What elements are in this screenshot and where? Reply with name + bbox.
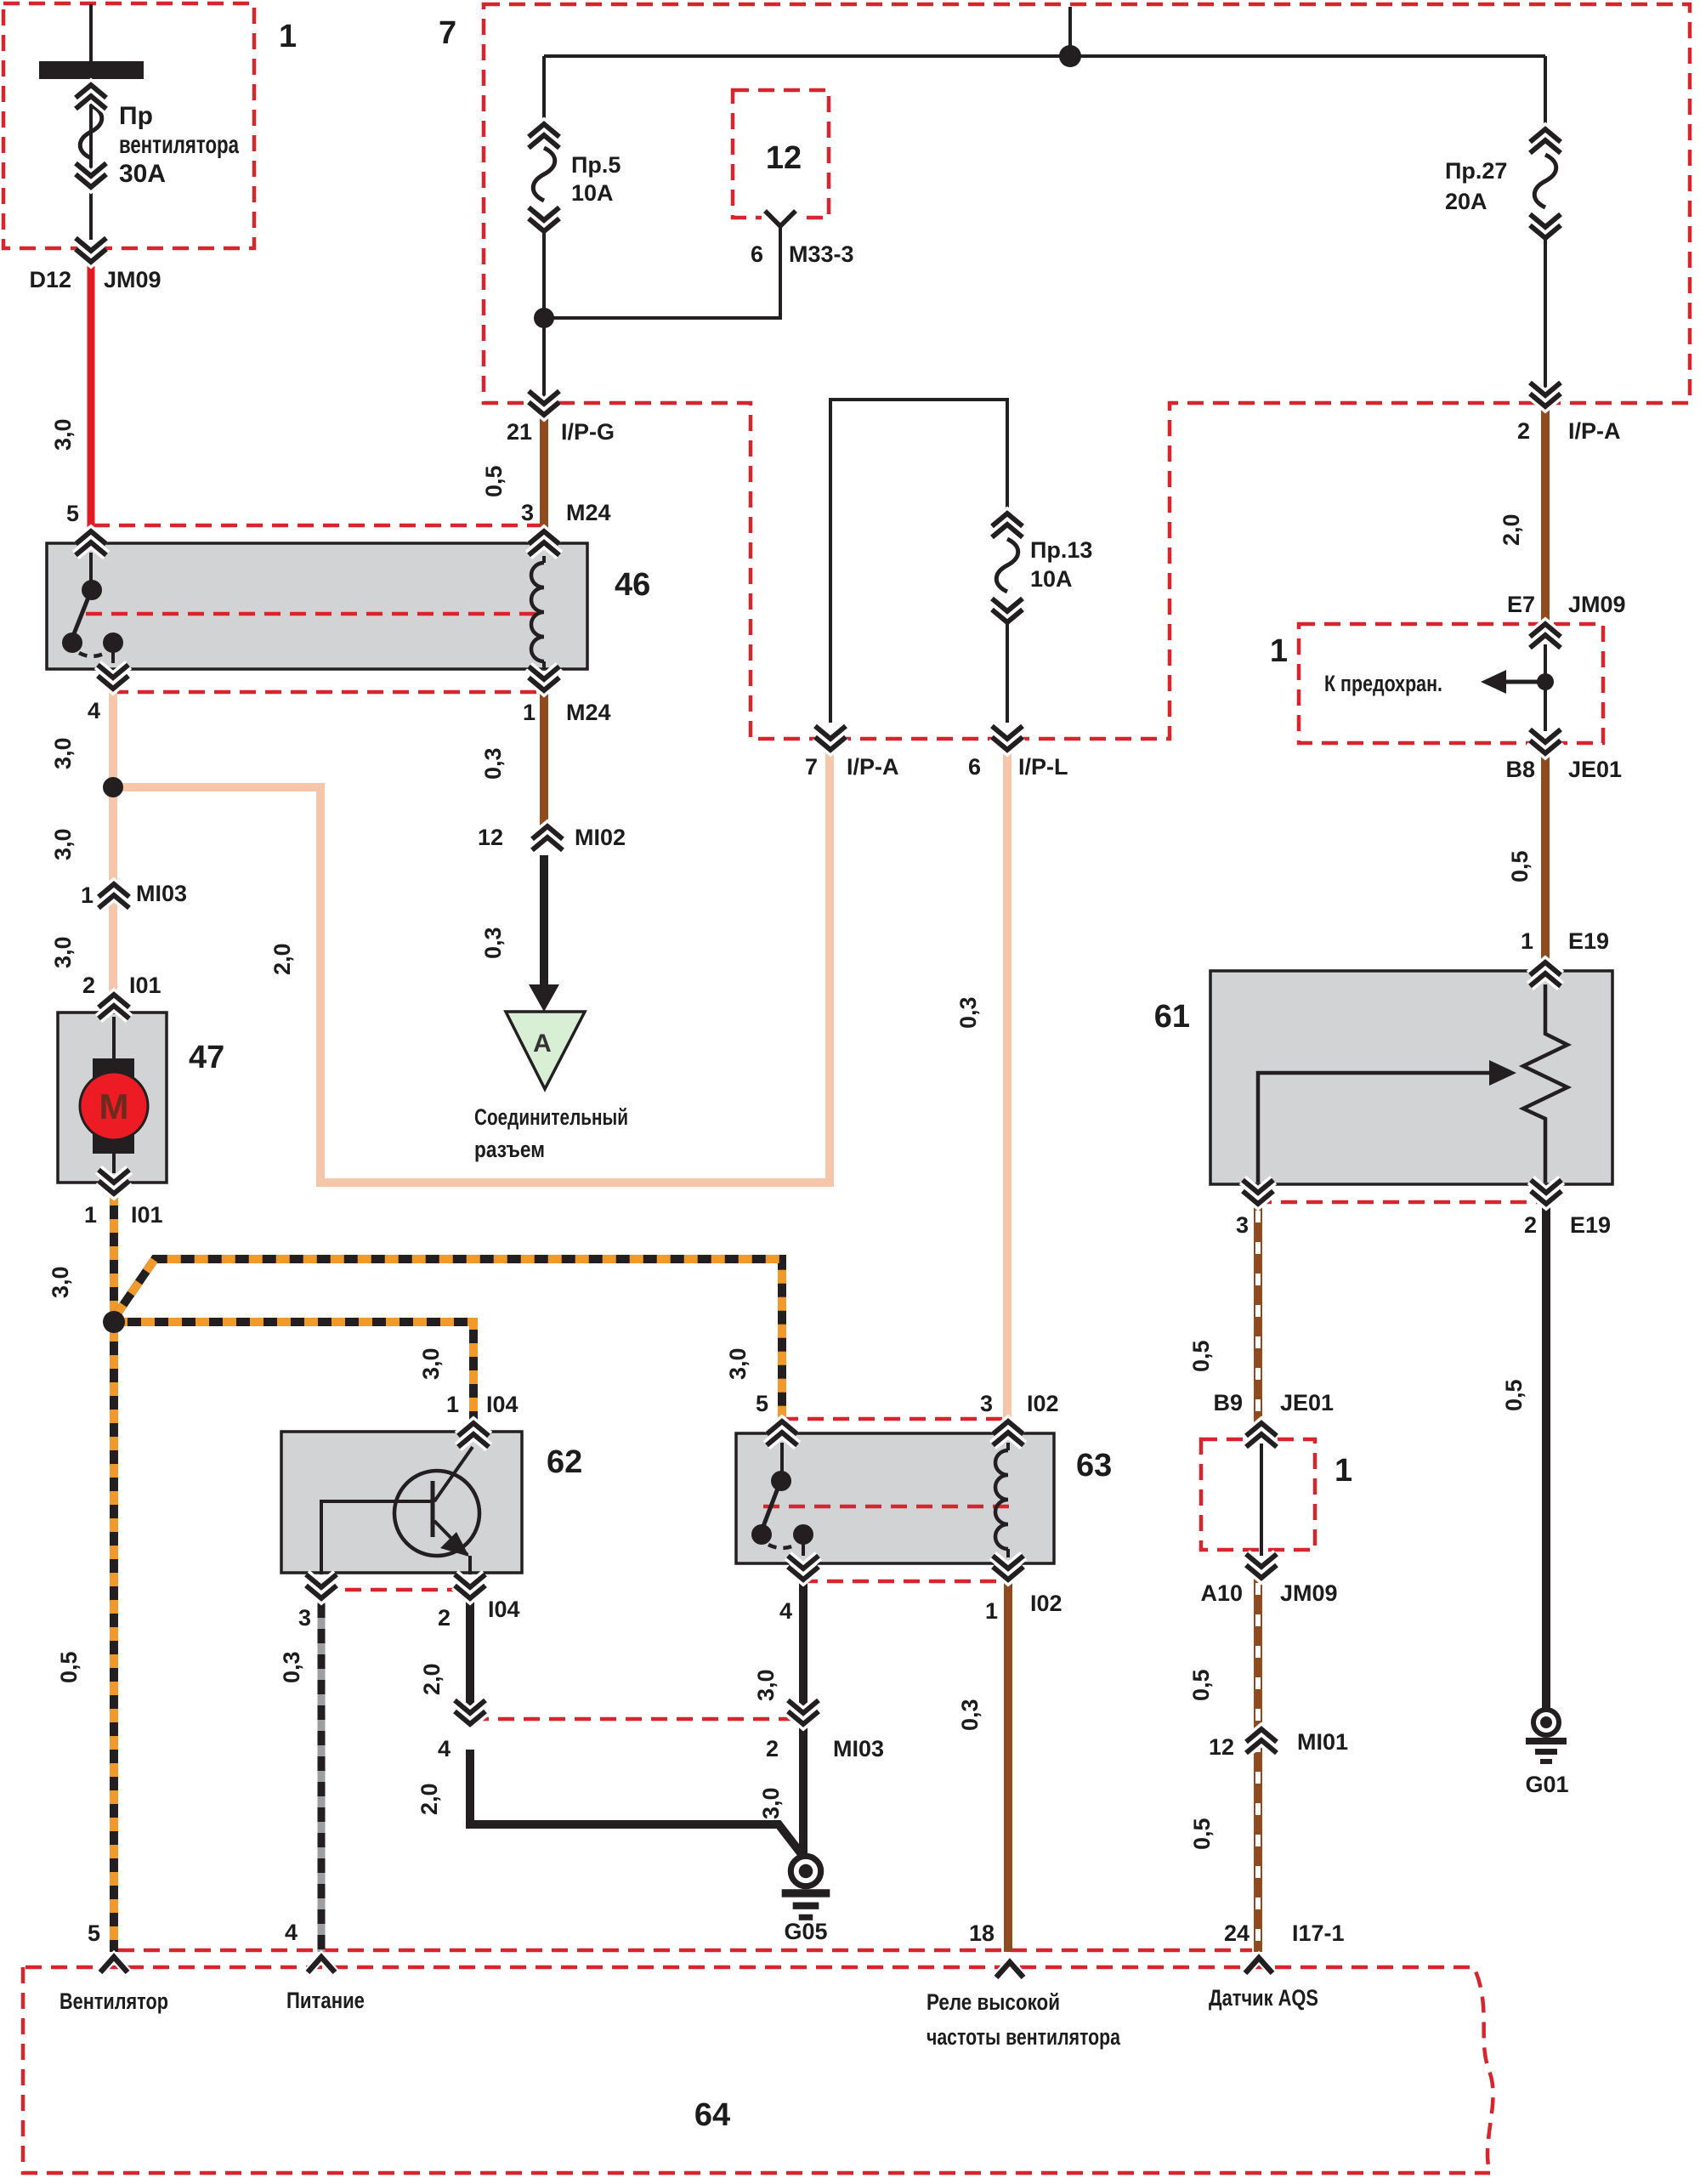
svg-text:разъем: разъем bbox=[474, 1137, 545, 1162]
connector D12 JM09 bbox=[76, 238, 106, 262]
relay 63 box bbox=[736, 1433, 1054, 1563]
svg-text:МI02: МI02 bbox=[575, 825, 626, 850]
relay 46 wire contact to pin 4 bbox=[111, 648, 115, 663]
wire fusible link to D12 connector bbox=[89, 79, 93, 240]
svg-text:47: 47 bbox=[189, 1040, 224, 1075]
svg-text:I/P-А: I/P-А bbox=[847, 754, 899, 780]
svg-text:Е19: Е19 bbox=[1570, 1212, 1611, 1238]
svg-text:JM09: JM09 bbox=[1568, 592, 1626, 617]
motor 47 pin 1 I01 chevron bbox=[99, 1170, 129, 1194]
svg-text:6: 6 bbox=[968, 754, 981, 780]
wire size labels (rotated) bbox=[48, 418, 1533, 1850]
svg-text:7: 7 bbox=[439, 15, 456, 51]
svg-text:4: 4 bbox=[438, 1736, 450, 1761]
relay 63 connector line top bbox=[782, 1417, 1010, 1421]
wire right drop to fuse Пр.27 bbox=[1544, 56, 1547, 129]
svg-text:M: M bbox=[99, 1086, 129, 1126]
junction top feed bbox=[1059, 45, 1081, 67]
wire orange/black branch (3,0) to relay 63 pin 5 bbox=[116, 1259, 782, 1423]
svg-text:12: 12 bbox=[766, 140, 802, 176]
svg-text:0,5: 0,5 bbox=[1188, 1340, 1214, 1372]
connector boundary line bottom bbox=[118, 1949, 1252, 1953]
relay 63 connector line bottom bbox=[802, 1580, 1010, 1584]
svg-text:JM09: JM09 bbox=[1280, 1580, 1338, 1606]
wire from top border into fusible link bbox=[89, 4, 93, 63]
relay 46 switch common dot bbox=[82, 580, 102, 600]
transistor 62 emitter with arrow bbox=[434, 1521, 467, 1555]
svg-text:МI03: МI03 bbox=[833, 1736, 884, 1761]
svg-text:G01: G01 bbox=[1525, 1772, 1568, 1797]
svg-text:2,0: 2,0 bbox=[1499, 513, 1524, 546]
svg-text:4: 4 bbox=[88, 698, 100, 723]
wire brown I/P-A pin 2 (2,0) down to E7 JM09 bbox=[1541, 408, 1550, 627]
svg-text:0,3: 0,3 bbox=[480, 747, 506, 780]
wire fuse Пр.27 down to I/P-A pin 2 bbox=[1544, 238, 1547, 405]
wire orange/black motor pin1 I01 down to terminal 5 bbox=[110, 1192, 118, 1952]
relay 46 pin 1 chevron bbox=[529, 667, 559, 690]
wire brown B8 JE01 (0,5) down to box61 pin 1 E19 bbox=[1541, 752, 1550, 967]
wire brown relay46 pin1 M24 to MI02 bbox=[540, 680, 548, 828]
svg-text:5: 5 bbox=[88, 1920, 100, 1946]
svg-text:2: 2 bbox=[1524, 1212, 1537, 1238]
svg-text:3,0: 3,0 bbox=[50, 936, 76, 968]
svg-text:1: 1 bbox=[84, 1202, 97, 1228]
svg-text:1: 1 bbox=[523, 700, 535, 725]
relay 46 connector line bottom bbox=[112, 690, 545, 695]
svg-text:4: 4 bbox=[285, 1920, 297, 1945]
box 7 (fuse/relay box top) bbox=[484, 4, 1690, 739]
wire orange/black branch (3,0) to transistor pin 1 I04 bbox=[114, 1322, 473, 1421]
wire black box61 pin2 E19 (0,5) down to ground G01 bbox=[1542, 1200, 1550, 1709]
arrow К предохран. bbox=[1501, 680, 1544, 684]
wire red D12-JM09 (3,0) to relay 46 pin 5 bbox=[88, 264, 95, 536]
relay 63 coil bbox=[1006, 1443, 1010, 1557]
relay 46 pin 3 chevron bbox=[529, 531, 559, 555]
svg-text:Датчик АQS: Датчик АQS bbox=[1209, 1985, 1318, 2011]
relay 46 pin 5 chevron bbox=[76, 531, 106, 555]
junction pink wire bbox=[103, 777, 123, 797]
transistor 62 pin 3 chevron bbox=[306, 1574, 337, 1598]
relay 63 pin 5 chevron bbox=[767, 1421, 797, 1445]
box 1 (small, JE01/JM09) bbox=[1201, 1439, 1315, 1550]
wire gray/black transistor pin3 (0,3) down to terminal 4 bbox=[318, 1598, 326, 1952]
relay 46 switch blade bbox=[73, 595, 89, 636]
wire fuse Пр.5 down to I/P-G pin 21 bbox=[542, 231, 546, 411]
terminal 5 Вентилятор bbox=[100, 1957, 127, 1972]
relay 63 switch dashed arc bbox=[768, 1545, 796, 1548]
svg-text:Вентилятор: Вентилятор bbox=[59, 1988, 168, 2014]
svg-text:1: 1 bbox=[985, 1598, 998, 1624]
svg-text:частоты вентилятора: частоты вентилятора bbox=[926, 2024, 1121, 2050]
svg-text:5: 5 bbox=[756, 1391, 768, 1416]
relay 62 connector line bottom bbox=[320, 1588, 472, 1592]
connector 12 MI01 bbox=[1246, 1729, 1277, 1753]
fuse Пр.13 10A bbox=[996, 539, 1018, 592]
svg-text:Питание: Питание bbox=[286, 1988, 365, 2013]
svg-text:1: 1 bbox=[81, 882, 93, 908]
svg-text:2,0: 2,0 bbox=[416, 1783, 442, 1815]
svg-text:3,0: 3,0 bbox=[50, 828, 76, 860]
junction in К предохран. box bbox=[1537, 673, 1554, 690]
motor 47 pin 2 I01 chevron bbox=[99, 995, 129, 1018]
svg-text:3,0: 3,0 bbox=[48, 1266, 73, 1298]
relay 46 switch contact dots bbox=[62, 633, 82, 653]
box61 resistor bbox=[1523, 984, 1567, 1183]
svg-text:I01: I01 bbox=[131, 1202, 163, 1228]
svg-text:0,5: 0,5 bbox=[56, 1651, 82, 1683]
svg-text:Е19: Е19 bbox=[1568, 928, 1609, 954]
junction M33-3 branch bbox=[534, 308, 554, 328]
svg-text:3: 3 bbox=[980, 1391, 993, 1416]
connector 4 MI03 bbox=[455, 1700, 485, 1724]
box 1 (К предохран.) bbox=[1299, 624, 1603, 743]
ground G05 bbox=[782, 1856, 830, 1920]
connector I/P-A pin 7 bbox=[815, 726, 846, 750]
svg-text:I02: I02 bbox=[1027, 1391, 1059, 1416]
svg-text:К предохран.: К предохран. bbox=[1324, 671, 1442, 696]
connector 1 MI03 bbox=[99, 884, 129, 908]
svg-text:0,3: 0,3 bbox=[955, 996, 981, 1029]
svg-text:JM09: JM09 bbox=[104, 267, 161, 292]
svg-text:1: 1 bbox=[1270, 633, 1288, 669]
relay 63 pin 3 I02 chevron bbox=[993, 1421, 1023, 1445]
relay 63 switch wire from pin 5 bbox=[780, 1443, 784, 1474]
svg-text:2: 2 bbox=[82, 973, 95, 998]
svg-text:МI01: МI01 bbox=[1297, 1729, 1348, 1755]
svg-text:0,5: 0,5 bbox=[1189, 1818, 1215, 1850]
svg-text:0,3: 0,3 bbox=[480, 927, 506, 959]
relay 46 connector line top bbox=[93, 524, 544, 528]
svg-text:3: 3 bbox=[521, 500, 534, 525]
svg-text:1: 1 bbox=[1334, 1453, 1352, 1489]
connector E7 JM09 bbox=[1530, 624, 1561, 648]
svg-text:18: 18 bbox=[969, 1920, 994, 1946]
svg-text:6: 6 bbox=[751, 241, 763, 267]
relay 63 switch common dot bbox=[771, 1471, 791, 1491]
svg-text:24: 24 bbox=[1224, 1920, 1249, 1946]
transistor 62 circle bbox=[394, 1471, 479, 1556]
connector I/P-G pin 21 bbox=[529, 391, 559, 415]
junction orange wire bbox=[103, 1311, 125, 1333]
wire left drop to fuse Пр.5 bbox=[542, 56, 546, 123]
svg-text:Пр: Пр bbox=[119, 102, 153, 130]
motor 47 internal wire bottom bbox=[112, 1154, 116, 1173]
box 1 (fuse box top-left) bbox=[3, 3, 254, 248]
joint connector triangle A bbox=[506, 1012, 585, 1089]
fuse Пр.5 10A bbox=[533, 148, 555, 201]
fusible link bar (Пр вентилятора 30A) bbox=[39, 61, 144, 79]
wire pink relay46 pin4 down to junction bbox=[109, 680, 117, 787]
svg-text:Реле высокой: Реле высокой bbox=[926, 1989, 1060, 2015]
svg-text:МI03: МI03 bbox=[136, 881, 187, 906]
svg-text:2: 2 bbox=[766, 1736, 779, 1761]
svg-text:Пр.5: Пр.5 bbox=[571, 152, 620, 178]
wire through К предохран. box bbox=[1544, 644, 1547, 731]
wire brown relay63 pin1 I02 (0,3) down to terminal 18 bbox=[1004, 1574, 1012, 1952]
svg-text:3: 3 bbox=[1236, 1212, 1249, 1238]
svg-text:4: 4 bbox=[779, 1598, 792, 1624]
terminal 24 Датчик AQS bbox=[1245, 1958, 1272, 1973]
motor 47 box bbox=[58, 1013, 167, 1183]
connector MI02 pin 12 bbox=[532, 826, 563, 850]
svg-text:М33-3: М33-3 bbox=[789, 241, 854, 267]
terminal 4 Питание bbox=[308, 1957, 335, 1972]
svg-text:А10: А10 bbox=[1200, 1580, 1243, 1606]
wire pink I/P-L pin 6 down to relay 63 pin 3 bbox=[1003, 746, 1011, 1423]
motor 47 red circle M bbox=[80, 1072, 148, 1140]
relay 46 switch dashed arc bbox=[79, 653, 105, 656]
svg-text:0,5: 0,5 bbox=[481, 465, 507, 497]
svg-text:JЕ01: JЕ01 bbox=[1280, 1390, 1334, 1415]
connector A10 JM09 bbox=[1246, 1554, 1277, 1578]
svg-text:I17-1: I17-1 bbox=[1292, 1920, 1345, 1946]
svg-text:2: 2 bbox=[1517, 418, 1530, 444]
svg-text:0,5: 0,5 bbox=[1507, 850, 1533, 882]
svg-text:D12: D12 bbox=[29, 267, 71, 292]
box7 black loop wire I/P-A pin7 to Пр.13 bbox=[830, 400, 1007, 723]
transistor unit 62 box bbox=[281, 1432, 522, 1573]
connector line E19 below box 61 bbox=[1255, 1200, 1547, 1205]
wire brown-white A10 JM09 down to terminal 24 I17-1 bbox=[1254, 1574, 1262, 1952]
svg-text:2: 2 bbox=[438, 1605, 450, 1631]
svg-text:I04: I04 bbox=[486, 1392, 518, 1417]
wire black MI02 to joint connector arrow bbox=[540, 855, 548, 984]
connector 2 MI03 bbox=[788, 1700, 819, 1724]
transistor 62 base lead bbox=[321, 1501, 433, 1574]
svg-text:3,0: 3,0 bbox=[758, 1787, 784, 1819]
box61 pin 1 E19 chevron bbox=[1530, 962, 1561, 986]
svg-text:I02: I02 bbox=[1030, 1591, 1062, 1616]
svg-text:0,3: 0,3 bbox=[957, 1699, 983, 1731]
svg-text:3,0: 3,0 bbox=[50, 737, 76, 769]
relay 46 switch wire from pin 5 bbox=[89, 553, 93, 585]
wire fuse Пр.13 to I/P-L pin 6 bbox=[1006, 621, 1009, 723]
wire pink junction to motor 47 pin 2 I01 bbox=[109, 787, 117, 1013]
svg-text:46: 46 bbox=[615, 567, 650, 603]
svg-text:62: 62 bbox=[547, 1444, 582, 1480]
svg-text:Пр.13: Пр.13 bbox=[1030, 537, 1092, 563]
svg-text:0,3: 0,3 bbox=[279, 1651, 304, 1683]
svg-text:Пр.27: Пр.27 bbox=[1445, 158, 1507, 184]
svg-text:63: 63 bbox=[1076, 1448, 1112, 1483]
svg-text:I/P-А: I/P-А bbox=[1568, 418, 1621, 444]
connector B9 JE01 bbox=[1246, 1423, 1277, 1447]
fuse Пр.27 20A bbox=[1534, 155, 1556, 207]
fuse symbol Пр вентилятора 30A bbox=[80, 105, 102, 158]
svg-text:1: 1 bbox=[1521, 928, 1533, 954]
terminal 18 Реле bbox=[996, 1962, 1023, 1977]
svg-text:61: 61 bbox=[1154, 999, 1190, 1035]
transistor 62 pin 2 I04 chevron bbox=[455, 1574, 485, 1598]
wire brown I/P-G pin 21 to relay46 pin 3 M24 bbox=[540, 411, 548, 537]
svg-text:I04: I04 bbox=[488, 1597, 520, 1622]
wire pink branch (2,0) to connector I/P-A pin 7 bbox=[113, 746, 830, 1183]
svg-text:12: 12 bbox=[478, 825, 503, 850]
wire brown-white box61 pin3 to B9 JE01 bbox=[1254, 1200, 1262, 1425]
box61 pin 3 chevron bbox=[1243, 1180, 1273, 1204]
wire black transistor pin2 I04 (2,0) down to MI03 pin4 bbox=[466, 1598, 474, 1722]
wire stub to top border bbox=[1068, 7, 1072, 56]
wire through small box 1 bbox=[1260, 1444, 1263, 1556]
svg-text:G05: G05 bbox=[784, 1919, 827, 1944]
svg-text:0,5: 0,5 bbox=[1188, 1669, 1214, 1701]
motor 47 internal wire top bbox=[112, 1017, 116, 1059]
box61 wiper arrow bbox=[1258, 1073, 1494, 1183]
connector B8 JE01 bbox=[1530, 729, 1561, 753]
box 64 (bottom connector) bbox=[23, 1967, 1493, 2173]
svg-text:3: 3 bbox=[298, 1605, 311, 1631]
transistor unit 62 pin 1 I04 chevron bbox=[458, 1423, 489, 1447]
relay 63 pin 1 I02 chevron bbox=[993, 1556, 1023, 1580]
relay 46 connector line middle bbox=[86, 612, 540, 616]
svg-text:М24: М24 bbox=[566, 700, 611, 725]
arrowhead into joint connector bbox=[529, 984, 559, 1012]
connector line MI03 bbox=[473, 1717, 800, 1722]
svg-text:2,0: 2,0 bbox=[269, 943, 295, 975]
svg-text:1: 1 bbox=[446, 1392, 459, 1417]
box61 pin 2 E19 chevron bbox=[1531, 1180, 1561, 1204]
svg-text:5: 5 bbox=[66, 501, 79, 526]
wire M33-3 branch bbox=[547, 228, 780, 318]
transistor 62 collector bbox=[434, 1447, 473, 1501]
svg-text:0,5: 0,5 bbox=[1501, 1379, 1527, 1411]
svg-text:3,0: 3,0 bbox=[50, 418, 76, 451]
svg-text:64: 64 bbox=[694, 2097, 730, 2133]
svg-text:2,0: 2,0 bbox=[419, 1663, 445, 1695]
relay 46 pin 4 chevron bbox=[98, 665, 128, 689]
svg-text:В8: В8 bbox=[1505, 757, 1535, 782]
svg-text:21: 21 bbox=[507, 419, 532, 445]
box 12 bbox=[733, 90, 829, 218]
transistor 62 base bar bbox=[431, 1481, 435, 1537]
connector M33-3 pin 6 (single V) bbox=[762, 210, 799, 222]
svg-text:30А: 30А bbox=[119, 160, 166, 188]
svg-text:20А: 20А bbox=[1445, 189, 1487, 214]
svg-text:10А: 10А bbox=[1030, 566, 1073, 592]
relay 63 switch blade bbox=[762, 1486, 779, 1529]
svg-text:12: 12 bbox=[1209, 1734, 1234, 1760]
relay 46 coil bbox=[542, 556, 546, 668]
wire black MI03 pin4 (2,0) to ground G05 bbox=[470, 1750, 802, 1854]
svg-text:вентилятора: вентилятора bbox=[119, 131, 239, 159]
motor 47 commutator bar bbox=[93, 1058, 134, 1154]
ground G01 bbox=[1526, 1710, 1567, 1764]
resistor unit 61 box bbox=[1210, 971, 1612, 1184]
svg-text:3,0: 3,0 bbox=[725, 1347, 751, 1380]
relay 63 switch contact dots bbox=[751, 1524, 772, 1545]
relay 63 connector line middle bbox=[763, 1505, 1010, 1509]
connector I/P-L pin 6 bbox=[992, 726, 1023, 750]
svg-text:7: 7 bbox=[805, 754, 818, 780]
svg-text:A: A bbox=[533, 1030, 552, 1058]
svg-text:I/P-L: I/P-L bbox=[1018, 754, 1068, 780]
svg-text:3,0: 3,0 bbox=[418, 1347, 444, 1380]
svg-text:В9: В9 bbox=[1213, 1390, 1243, 1415]
svg-text:I01: I01 bbox=[129, 973, 161, 998]
svg-text:М24: М24 bbox=[566, 500, 611, 525]
relay 63 wire contact to pin 4 bbox=[802, 1540, 805, 1556]
relay 46 box bbox=[47, 543, 587, 669]
svg-text:I/P-G: I/P-G bbox=[561, 419, 615, 445]
svg-text:1: 1 bbox=[279, 19, 297, 54]
connector I/P-A pin 2 bbox=[1530, 383, 1561, 406]
svg-text:JЕ01: JЕ01 bbox=[1568, 757, 1622, 782]
relay 63 pin 4 chevron bbox=[788, 1556, 819, 1580]
svg-text:Е7: Е7 bbox=[1507, 592, 1535, 617]
svg-text:Соединительный: Соединительный bbox=[474, 1104, 628, 1130]
svg-text:10А: 10А bbox=[571, 180, 614, 206]
wire black relay63 pin4 (3,0) down to ground G05 bbox=[799, 1574, 807, 1855]
svg-text:3,0: 3,0 bbox=[753, 1669, 779, 1701]
wire top feed horizontal bbox=[544, 54, 1545, 58]
